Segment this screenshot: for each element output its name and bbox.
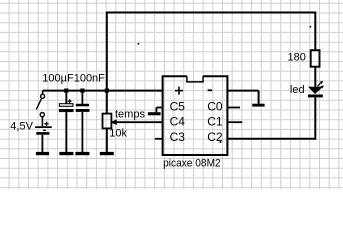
svg-text:C1: C1 (207, 115, 223, 129)
svg-text:C4: C4 (170, 115, 186, 129)
svg-text:led: led (290, 84, 305, 96)
svg-text:100µF100nF: 100µF100nF (42, 72, 105, 84)
svg-text:C0: C0 (207, 99, 223, 113)
svg-text:temps: temps (115, 108, 145, 120)
svg-text:10k: 10k (109, 128, 127, 140)
svg-text:4,5V: 4,5V (10, 120, 33, 132)
svg-text:180: 180 (288, 52, 306, 64)
svg-text:C2: C2 (207, 130, 223, 144)
svg-text:picaxe 08M2: picaxe 08M2 (163, 158, 221, 170)
svg-text:C3: C3 (170, 130, 186, 144)
svg-text:C5: C5 (170, 99, 186, 113)
